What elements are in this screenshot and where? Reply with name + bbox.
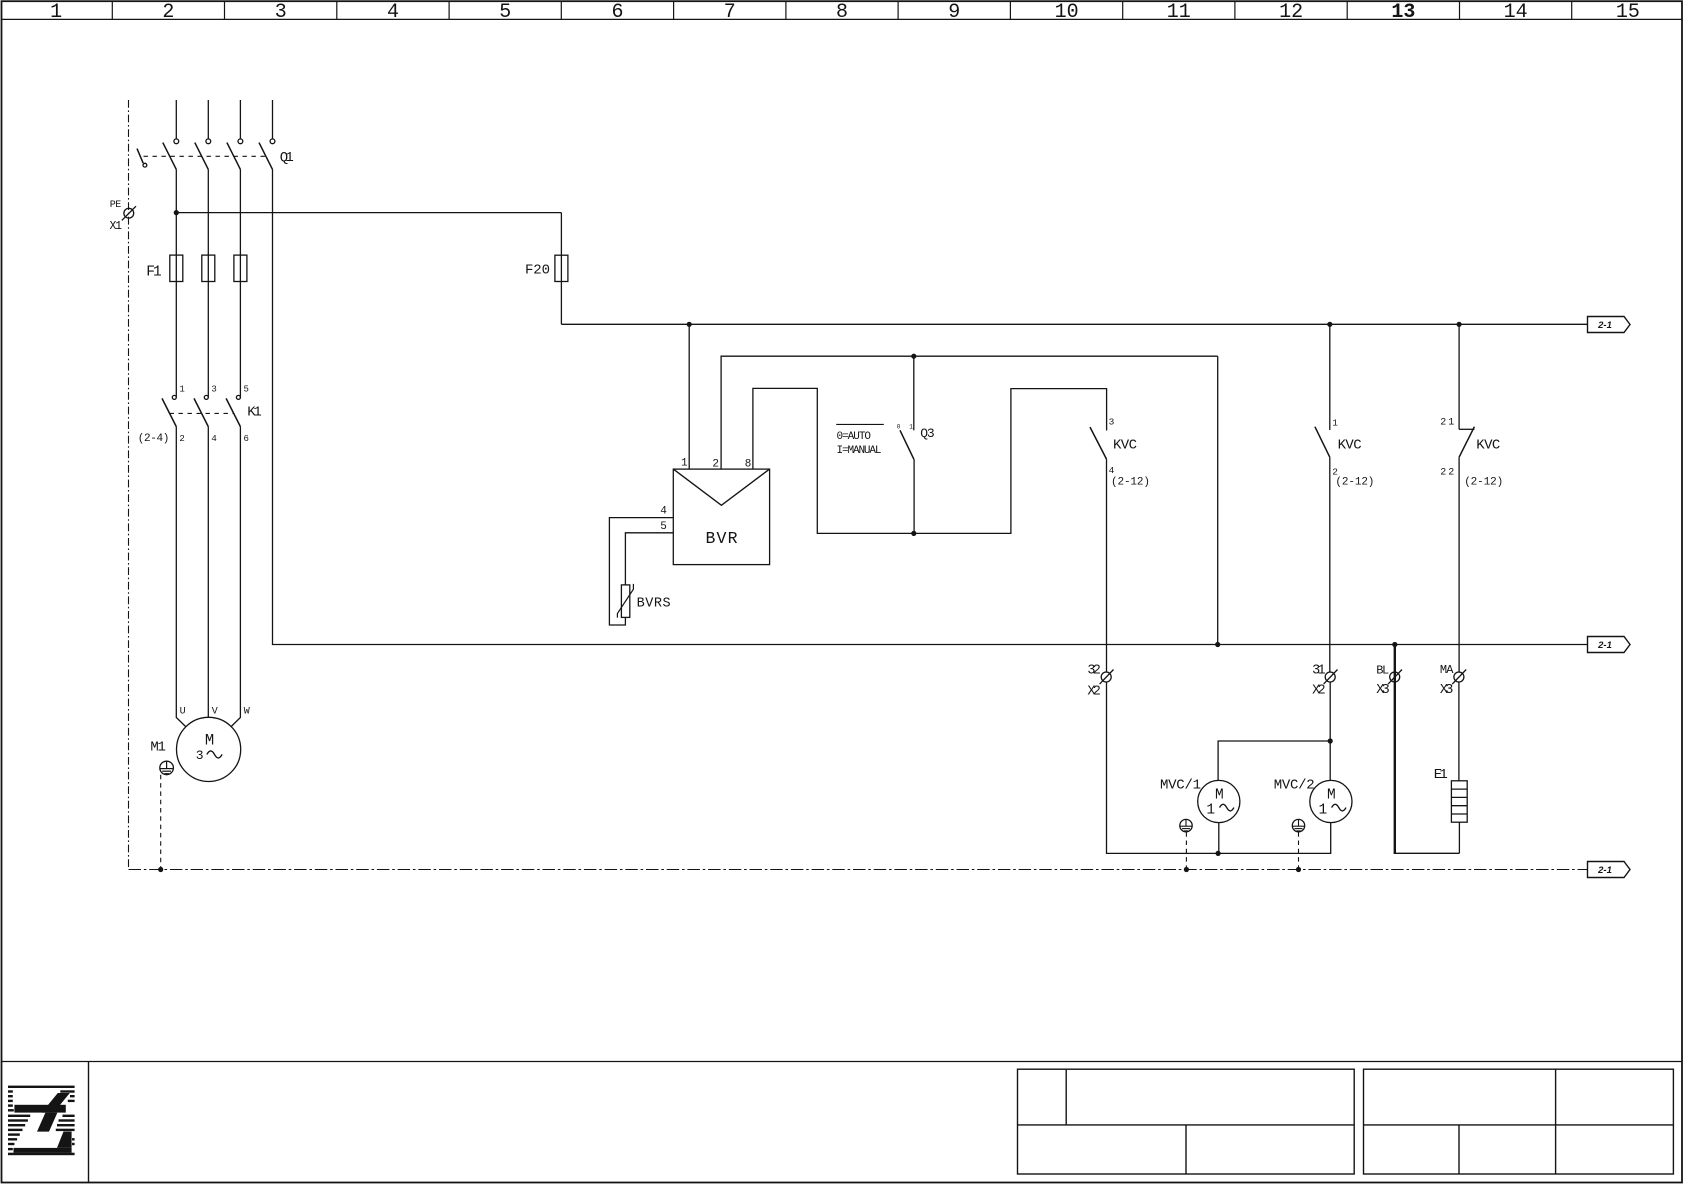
svg-text:Q1: Q1 bbox=[280, 150, 294, 166]
svg-text:V: V bbox=[212, 706, 218, 717]
fuse F20 bbox=[555, 255, 568, 281]
wire V K1 to motor bbox=[207, 427, 209, 718]
thermistor BVRS slash bbox=[617, 584, 633, 618]
svg-text:5: 5 bbox=[244, 385, 249, 395]
wire BVR pin4 to BVRS loop bbox=[609, 518, 673, 625]
svg-text:1: 1 bbox=[179, 385, 184, 395]
svg-text:1: 1 bbox=[1206, 803, 1215, 819]
contact KVC 21-22 (NC) bbox=[1459, 324, 1474, 672]
node junction BL tap bbox=[1392, 642, 1397, 647]
motor M1 circle bbox=[177, 717, 241, 781]
wire BVR pin1 bbox=[688, 324, 690, 469]
svg-text:M: M bbox=[1215, 787, 1224, 803]
motor M1 ac wave bbox=[207, 751, 222, 758]
ruler row bottom line bbox=[2, 18, 1683, 20]
wire neutral N incoming bbox=[272, 100, 274, 139]
svg-text:0=AUTO: 0=AUTO bbox=[837, 431, 872, 443]
terminal X1 PE bbox=[122, 206, 136, 220]
wire PE rail dash-dot vertical bbox=[128, 100, 130, 870]
wire branch to MVC1 bbox=[1218, 741, 1330, 781]
svg-text:21: 21 bbox=[1440, 418, 1456, 429]
svg-text:31: 31 bbox=[1312, 664, 1326, 679]
off-page arrow 2-1 bottom bbox=[1588, 862, 1631, 878]
motor MVC/1 circle bbox=[1198, 780, 1240, 822]
wire PE rail dash-dot horizontal bbox=[129, 869, 1588, 871]
contactor K1 pole 1 bbox=[162, 395, 176, 426]
title block logo cell divider bbox=[88, 1062, 90, 1183]
main switch Q1 pole 1 bbox=[163, 139, 179, 169]
svg-text:PE: PE bbox=[110, 200, 122, 211]
off-page arrow 2-1 top bbox=[1588, 317, 1631, 333]
svg-text:X2: X2 bbox=[1312, 683, 1326, 698]
node junction KVC(1-2) tap bbox=[1327, 322, 1332, 327]
svg-text:2: 2 bbox=[712, 459, 719, 471]
svg-text:X3: X3 bbox=[1376, 683, 1390, 698]
motor MVC/1 earth symbol bbox=[1180, 819, 1192, 831]
svg-text:1: 1 bbox=[1332, 418, 1338, 429]
motor MVC/1 ac wave bbox=[1220, 804, 1234, 811]
title block right table bbox=[1364, 1069, 1674, 1174]
svg-text:MVC/2: MVC/2 bbox=[1274, 777, 1315, 793]
relay BVR chevron bbox=[673, 469, 769, 505]
svg-text:2: 2 bbox=[162, 1, 174, 24]
svg-text:12: 12 bbox=[1279, 1, 1303, 24]
svg-text:I=MANUAL: I=MANUAL bbox=[837, 445, 882, 457]
wire MA down to E1 bbox=[1458, 682, 1460, 781]
node junction MVC2 earth bbox=[1296, 867, 1301, 872]
svg-text:Q3: Q3 bbox=[920, 426, 935, 441]
svg-text:KVC: KVC bbox=[1338, 438, 1362, 454]
node junction BVR pin1 tap bbox=[687, 322, 692, 327]
company logo (hatched Z emblem) bbox=[8, 1086, 75, 1156]
svg-text:6: 6 bbox=[611, 1, 623, 24]
main switch Q1 pole 4 bbox=[259, 139, 275, 169]
node junction KVC(21-22) tap bbox=[1457, 322, 1462, 327]
ruler column numbers 1-15 bbox=[50, 1, 1640, 24]
svg-text:BVR: BVR bbox=[706, 529, 738, 548]
contactor K1 pole 3 bbox=[226, 395, 240, 426]
svg-text:4: 4 bbox=[1109, 465, 1115, 476]
svg-text:BL: BL bbox=[1376, 664, 1389, 678]
svg-text:U: U bbox=[180, 706, 186, 717]
wire rail down to bottom rail bbox=[1217, 356, 1219, 644]
node junction Q3 bottom bbox=[911, 531, 916, 536]
svg-text:15: 15 bbox=[1616, 1, 1640, 24]
svg-text:X1: X1 bbox=[110, 220, 123, 233]
terminal 31 X2 bbox=[1324, 670, 1338, 685]
relay BVR box bbox=[673, 469, 769, 564]
wire 32 down to MVC bottom rail bbox=[1107, 682, 1331, 854]
Q3 legend overline bbox=[836, 423, 884, 425]
wire BVR pin2 rail bbox=[721, 356, 1218, 469]
svg-text:2-1: 2-1 bbox=[1597, 640, 1612, 651]
wire phase L1 incoming bbox=[175, 100, 177, 139]
svg-text:9: 9 bbox=[948, 1, 960, 24]
wire 31 down to MVC2 bbox=[1329, 682, 1331, 781]
wire phase L3 incoming bbox=[239, 100, 241, 139]
wire control feed to F20 bbox=[176, 212, 561, 214]
svg-text:KVC: KVC bbox=[1113, 437, 1137, 453]
svg-text:13: 13 bbox=[1391, 1, 1415, 24]
svg-text:(2-4): (2-4) bbox=[138, 433, 170, 445]
node junction MVC1 earth bbox=[1184, 867, 1189, 872]
motor MVC/2 earth symbol bbox=[1292, 819, 1304, 831]
fuse F1 phase 2 bbox=[202, 255, 215, 281]
svg-text:2-1: 2-1 bbox=[1597, 865, 1612, 876]
svg-text:F1: F1 bbox=[146, 265, 162, 281]
main switch Q1 mechanical link (dashed) bbox=[144, 155, 267, 157]
main switch Q1 pole 2 bbox=[195, 139, 211, 169]
svg-text:(2-12): (2-12) bbox=[1464, 477, 1503, 489]
terminal BL X3 bbox=[1388, 670, 1402, 685]
wire L3 from Q1 through F1 to K1 bbox=[239, 169, 241, 397]
svg-text:8: 8 bbox=[836, 1, 848, 24]
svg-text:2: 2 bbox=[179, 434, 184, 444]
ruler column dividers bbox=[112, 1, 1571, 19]
svg-text:1: 1 bbox=[50, 1, 62, 24]
svg-text:4: 4 bbox=[387, 1, 399, 24]
svg-text:M1: M1 bbox=[150, 740, 166, 756]
thermistor BVRS body bbox=[621, 585, 629, 618]
contact KVC 1-2 bbox=[1315, 324, 1330, 672]
svg-text:K1: K1 bbox=[247, 405, 261, 421]
wire BL thick bbox=[1394, 645, 1396, 854]
title block band top line bbox=[2, 1061, 1683, 1063]
svg-text:1: 1 bbox=[909, 424, 913, 431]
wire control feed down through F20 bbox=[560, 213, 562, 325]
node junction earth on PE rail bbox=[158, 867, 163, 872]
svg-text:3: 3 bbox=[211, 385, 216, 395]
motor MVC/2 circle bbox=[1310, 780, 1352, 822]
svg-text:32: 32 bbox=[1087, 664, 1101, 679]
svg-text:6: 6 bbox=[244, 434, 249, 444]
svg-text:M: M bbox=[205, 731, 214, 749]
wire MVC1 bottom bbox=[1218, 823, 1220, 854]
svg-text:8: 8 bbox=[745, 459, 752, 471]
wire W K1 to motor bbox=[231, 427, 241, 727]
svg-text:3: 3 bbox=[196, 748, 204, 763]
svg-text:14: 14 bbox=[1504, 1, 1528, 24]
wire BVR pin5 to BVRS bbox=[625, 533, 673, 585]
svg-text:MVC/1: MVC/1 bbox=[1160, 777, 1201, 793]
svg-text:0: 0 bbox=[897, 424, 901, 431]
svg-text:MA: MA bbox=[1440, 663, 1454, 677]
svg-text:3: 3 bbox=[1109, 416, 1115, 427]
motor MVC/2 ac wave bbox=[1332, 804, 1346, 811]
off-page arrow 2-1 middle bbox=[1588, 637, 1631, 653]
node junction rail to bottom rail bbox=[1215, 642, 1220, 647]
wire L1 from Q1 through F1 to K1 bbox=[175, 169, 177, 397]
wire E1 bottom bbox=[1458, 822, 1460, 853]
node junction MVC1 branch bbox=[1328, 738, 1333, 743]
heater E1 body bbox=[1451, 781, 1467, 822]
svg-text:3: 3 bbox=[275, 1, 287, 24]
svg-text:E1: E1 bbox=[1434, 767, 1448, 783]
terminal 32 X2 bbox=[1100, 670, 1114, 685]
node junction MVC1 bottom bbox=[1216, 851, 1221, 856]
main switch Q1 operating lever bbox=[137, 149, 147, 168]
svg-text:X3: X3 bbox=[1440, 683, 1454, 698]
fuse F1 phase 1 bbox=[170, 255, 183, 281]
wire phase L2 incoming bbox=[207, 100, 209, 139]
wire N from Q1 down to bottom rail bbox=[273, 169, 1588, 644]
wire BVR pin8 to Q3 branch bbox=[753, 388, 1107, 533]
wire earth dashed from M1 bbox=[160, 775, 162, 870]
wire U K1 to motor bbox=[176, 427, 186, 727]
svg-text:22: 22 bbox=[1440, 468, 1456, 479]
svg-text:X2: X2 bbox=[1087, 685, 1101, 700]
wire L2 from Q1 through F1 to K1 bbox=[207, 169, 209, 397]
svg-text:7: 7 bbox=[724, 1, 736, 24]
svg-text:BVRS: BVRS bbox=[637, 596, 671, 611]
wire earth dashed MVC2 bbox=[1298, 832, 1300, 869]
fuse F1 phase 3 bbox=[234, 255, 247, 281]
svg-text:5: 5 bbox=[499, 1, 511, 24]
wire control rail horizontal bbox=[561, 323, 1587, 325]
wire earth dashed MVC1 bbox=[1185, 832, 1187, 869]
svg-text:2-1: 2-1 bbox=[1597, 320, 1612, 331]
switch Q3 bbox=[900, 356, 914, 533]
svg-text:10: 10 bbox=[1055, 1, 1079, 24]
svg-text:(2-12): (2-12) bbox=[1335, 477, 1374, 489]
svg-text:4: 4 bbox=[660, 505, 667, 517]
node junction Q3 top bbox=[911, 354, 916, 359]
svg-text:W: W bbox=[244, 706, 250, 717]
svg-text:F20: F20 bbox=[525, 262, 550, 278]
contactor K1 mechanical link (dashed) bbox=[170, 412, 234, 414]
svg-text:1: 1 bbox=[1319, 803, 1328, 819]
svg-text:(2-12): (2-12) bbox=[1111, 476, 1150, 488]
wire BL to E1 bottom bbox=[1394, 852, 1460, 854]
motor M1 protective earth symbol bbox=[160, 761, 174, 775]
svg-text:KVC: KVC bbox=[1476, 438, 1500, 454]
main switch Q1 pole 3 bbox=[227, 139, 243, 169]
svg-text:11: 11 bbox=[1167, 1, 1191, 24]
terminal MA X3 bbox=[1452, 670, 1466, 685]
svg-text:M: M bbox=[1327, 787, 1336, 803]
svg-text:4: 4 bbox=[211, 434, 216, 444]
contactor K1 pole 2 bbox=[194, 395, 208, 426]
contact KVC 3-4 bbox=[1090, 427, 1107, 672]
title block left table bbox=[1018, 1069, 1355, 1174]
node junction L1 control tap bbox=[174, 210, 179, 215]
svg-text:1: 1 bbox=[681, 458, 688, 470]
svg-text:5: 5 bbox=[660, 521, 667, 533]
